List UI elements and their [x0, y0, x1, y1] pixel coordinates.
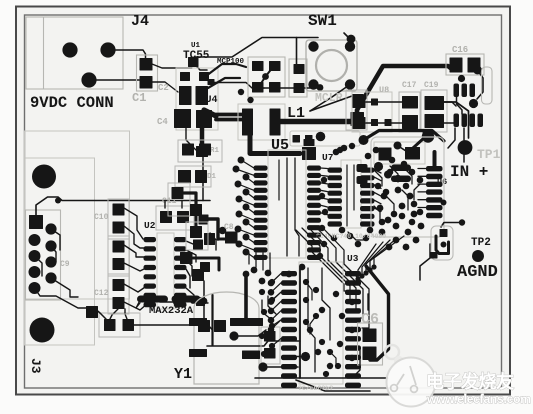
- bar left b: [357, 176, 368, 184]
- U3 pin column left: [281, 271, 297, 276]
- bottom bars under U2: [137, 296, 168, 303]
- silk box C19: [421, 90, 447, 132]
- inductor L1 outline: [238, 104, 285, 140]
- via pair above U7: [337, 147, 343, 153]
- svg-text:U2: U2: [144, 220, 156, 231]
- wire J3 pads fan: [51, 229, 60, 250]
- C11 outline: [156, 206, 194, 230]
- silk box D1: [175, 166, 211, 187]
- U5 pin column right: [307, 166, 321, 171]
- via below T: [229, 331, 238, 340]
- wire SW1 BR to MCLR diag: [310, 85, 350, 112]
- curved wire from via b: [477, 70, 483, 99]
- svg-text:D1: D1: [207, 173, 217, 181]
- svg-text:U8: U8: [379, 85, 389, 95]
- svg-text:AGND: AGND: [457, 263, 498, 282]
- thick net L1 to pad stack: [275, 119, 352, 125]
- C16 pad right: [468, 58, 481, 73]
- wire bottom row to SW1: [264, 87, 320, 89]
- U6 pin column: [426, 166, 443, 171]
- osc U wire: [436, 236, 449, 254]
- wire MCLR diag to pad stack: [310, 96, 352, 111]
- vias below U5: [243, 271, 250, 278]
- wire C4 down: [186, 128, 196, 150]
- capacitor C16 outline: [446, 54, 484, 75]
- svg-text:J4: J4: [131, 13, 149, 30]
- extra stubs bottom center: [272, 274, 281, 283]
- D1 pad a: [178, 170, 191, 183]
- Q1 pad right: [405, 147, 420, 160]
- svg-text:C19: C19: [424, 81, 439, 90]
- footprint right of Y1: [261, 327, 280, 364]
- U8 outline: [352, 92, 392, 132]
- svg-text:U4: U4: [206, 95, 218, 106]
- staircase U2 to U3 left: [262, 300, 272, 320]
- U2 pin column left: [144, 237, 157, 242]
- cluster pads mid: [168, 183, 190, 216]
- wire J4 pad3 to C1: [89, 79, 139, 81]
- svg-text:电子发烧友: 电子发烧友: [426, 371, 514, 392]
- svg-text:U1: U1: [191, 42, 201, 50]
- Y1 pad left a: [189, 318, 207, 326]
- SW1 pad BR: [345, 79, 355, 89]
- vias scattered right: [349, 299, 355, 305]
- wire: [203, 281, 205, 318]
- wire U6 area: [441, 223, 462, 228]
- Q1 pad left: [379, 148, 392, 161]
- MCP100 pad 1: [252, 61, 264, 71]
- wire C1 to U1 pad: [152, 64, 192, 68]
- Y1 T bar: [230, 318, 263, 326]
- crystal Y1 body: [194, 292, 259, 384]
- oscillator outline left of TP2: [431, 226, 453, 260]
- wire bundle U5 to U3 staircase: [296, 230, 360, 291]
- wire bars down: [457, 97, 463, 114]
- Y1 pad left b: [189, 349, 207, 357]
- C17 pad row1: [402, 96, 418, 109]
- C19 pad row1: [425, 96, 445, 110]
- big silk box left: [25, 131, 130, 299]
- Q1 via center: [394, 142, 402, 150]
- wire: [296, 356, 306, 358]
- wire diag pad3 to pad1: [258, 67, 273, 88]
- watermark swirl: [385, 345, 399, 359]
- C1 pad bottom: [140, 76, 153, 89]
- silk box Q1: [374, 142, 425, 164]
- silk outline above U5: [290, 131, 360, 146]
- switch SW1 body: [306, 40, 357, 91]
- pad right cluster: [225, 232, 238, 244]
- U7 pin column A: [328, 168, 343, 173]
- IC U5 body outline: [268, 150, 306, 258]
- pads bottom cluster: [198, 320, 210, 332]
- wire from U6 down right: [420, 244, 430, 280]
- small pad above U4 label: [208, 79, 215, 85]
- U4 pad b: [199, 72, 209, 81]
- polarized cap outline right: [482, 67, 493, 104]
- wire U4 to MCP100 diag2: [208, 78, 240, 88]
- silk box mid cluster: [186, 222, 208, 250]
- test point TP2: [472, 250, 484, 262]
- long vertical to Y1 area: [211, 295, 213, 345]
- svg-text:C4: C4: [157, 117, 168, 127]
- wires U5 right column to U7: [321, 167, 328, 170]
- bar center b: [391, 176, 411, 183]
- C14 bars row1: [454, 84, 476, 98]
- wire from via: [234, 330, 266, 336]
- osc dot: [441, 242, 447, 248]
- svg-text:C1: C1: [132, 91, 146, 105]
- L1 pad right: [270, 109, 281, 136]
- mounting hole bottom: [30, 318, 55, 343]
- wire TP1 down: [463, 154, 465, 162]
- thick bus U4 to L1 double: [204, 110, 216, 116]
- thick L wire: [184, 193, 196, 211]
- via fan left of U5: [238, 157, 245, 164]
- U3 pin column right: [345, 271, 361, 276]
- extra vias center right: [333, 149, 340, 156]
- wires left pads to U2: [124, 208, 143, 239]
- via lower: [258, 362, 267, 371]
- bar center a: [391, 165, 411, 172]
- svg-text:C8: C8: [224, 223, 234, 232]
- IC U3 body outline: [299, 262, 343, 384]
- IC U2 body outline: [157, 233, 174, 309]
- thick stub Q1 right down: [433, 152, 437, 168]
- big via top of U5: [316, 132, 326, 142]
- thick cluster right of C11: [199, 215, 209, 225]
- thick diagonal to C16: [357, 66, 453, 117]
- wire long from J3 trace to C11: [164, 201, 166, 209]
- wire MAX bottom bars: [136, 300, 140, 308]
- pad stack lower: [351, 112, 365, 126]
- wire Q1 pads: [398, 146, 408, 153]
- R1 outline: [178, 140, 222, 162]
- MCP100 pad 4: [269, 82, 281, 93]
- wire J3 up and across: [36, 197, 210, 215]
- via center below: [384, 171, 392, 179]
- wire SW1 to C3 vertical: [296, 38, 298, 65]
- pads below: [204, 233, 215, 245]
- C6 pad bottom: [363, 347, 377, 361]
- wires to U6 pins: [418, 168, 426, 170]
- wire row2 right: [444, 122, 454, 124]
- U1 top pad: [188, 57, 199, 67]
- svg-text:MCLR: MCLR: [315, 92, 343, 105]
- pad: [192, 269, 204, 281]
- via stub column left of U3: [268, 280, 275, 287]
- svg-text:C9: C9: [60, 260, 70, 269]
- C4 big pad right: [196, 110, 212, 128]
- R1 pad a: [182, 144, 194, 156]
- bracket pad: [302, 147, 316, 160]
- J4 pad 2: [100, 42, 115, 57]
- wire down: [195, 216, 198, 226]
- wires U3 right to below: [352, 350, 360, 378]
- C17 pad row2: [402, 115, 418, 129]
- J4 pad 3: [81, 72, 96, 87]
- U2 pin column right: [174, 237, 187, 242]
- via on long trace: [55, 198, 61, 204]
- supervisor MCP100 outline: [248, 57, 285, 97]
- extra vias bottom center: [269, 279, 275, 285]
- mounting hole top: [32, 165, 56, 189]
- C19 pad row2: [425, 114, 445, 128]
- wire C19 to TP1: [444, 102, 469, 138]
- C6 pad top: [363, 329, 377, 343]
- svg-text:U7: U7: [322, 152, 334, 163]
- svg-text:J3: J3: [28, 358, 43, 374]
- wire from small pad to MCP row: [214, 83, 264, 89]
- pad at stub end: [196, 146, 208, 157]
- U8 small pad row2 a: [371, 119, 378, 126]
- wire U1 top pad to SW1 net: [193, 62, 207, 70]
- wire C1 pad2 right: [152, 82, 178, 92]
- wire row1 right: [440, 102, 456, 106]
- svg-text:IN +: IN +: [450, 163, 488, 181]
- svg-text:9VDC CONN: 9VDC CONN: [30, 94, 114, 112]
- wire long bottom: [255, 377, 388, 379]
- svg-text:?C/cbC?b?: ?C/cbC?b?: [298, 385, 333, 392]
- svg-text:SW1: SW1: [308, 12, 337, 30]
- thick wrap around C6: [366, 266, 389, 360]
- vertical trace inside U7: [346, 165, 348, 226]
- small pad right of J3: [86, 306, 98, 318]
- J4 pad 1: [62, 42, 77, 57]
- svg-text:Y1: Y1: [174, 366, 192, 383]
- wire row2: [366, 122, 402, 124]
- Y1 T wire: [244, 276, 248, 318]
- wire down from U1 area: [202, 130, 204, 201]
- J3 round pads left column: [29, 234, 41, 246]
- U2 right small pads: [193, 240, 203, 250]
- silk box pad stack: [346, 90, 367, 130]
- small pad a: [293, 135, 301, 143]
- wires fan into U3 right diagonals: [374, 236, 404, 266]
- J3 round pads right column: [45, 223, 56, 234]
- U8 pad row1: [353, 96, 366, 108]
- vias between U7 and U6: [381, 193, 388, 200]
- black bar right of Y1: [242, 351, 260, 360]
- svg-text:TP1: TP1: [477, 147, 501, 162]
- U8 small pad row1: [371, 99, 378, 106]
- svg-text:TP2: TP2: [471, 237, 491, 249]
- silk box inner: [25, 158, 95, 345]
- U8 small pad row2 b: [385, 119, 392, 126]
- via near U3: [301, 352, 310, 361]
- MCP100 center via: [262, 73, 269, 80]
- vertical trace along U3: [299, 266, 301, 378]
- transistor U4 outline: [176, 68, 218, 130]
- test point TP1: [458, 140, 473, 155]
- wire into pad pair: [93, 307, 106, 319]
- thick L wire 2: [193, 258, 219, 270]
- U5 pin column left: [254, 166, 268, 171]
- via right of U6: [441, 200, 447, 206]
- MCP100 pad 3: [252, 82, 264, 93]
- C3 pad top: [294, 64, 305, 74]
- pad above bracket: [304, 139, 315, 146]
- bottom pad pair: [99, 313, 140, 337]
- via left of arch: [359, 135, 369, 145]
- J3 square pad: [29, 215, 43, 229]
- extra stubs center right: [374, 170, 382, 186]
- svg-text:U3: U3: [347, 253, 359, 264]
- SW1 pad BL: [308, 79, 318, 89]
- C11 pad a: [160, 211, 172, 223]
- SW1 pad TL: [308, 41, 318, 51]
- wire U4 to MCP100 diag1: [206, 64, 246, 76]
- osc bar left: [430, 252, 438, 259]
- D1 pad b: [195, 170, 207, 183]
- wires U5 left bottom down: [248, 253, 250, 264]
- C6 outline: [358, 323, 383, 365]
- wire via left: [160, 301, 177, 303]
- C15 bars row2: [454, 114, 484, 128]
- svg-text:C2: C2: [158, 83, 169, 93]
- U8 pad row2: [353, 117, 366, 129]
- connector J4 outline: [26, 17, 123, 89]
- vertical traces inside U3: [308, 268, 315, 372]
- wires U2 right fan: [186, 241, 193, 244]
- R1 pad b: [199, 144, 211, 156]
- via below C16 b: [473, 66, 482, 75]
- wire pad pair right: [134, 325, 213, 330]
- pad dot right: [197, 298, 206, 305]
- via left of Y1: [173, 298, 181, 306]
- extra vias top: [238, 89, 244, 95]
- via in cluster: [219, 227, 227, 235]
- silk box C17: [399, 92, 420, 132]
- wire horizontal mid: [207, 341, 300, 346]
- wire TP1 up: [463, 128, 465, 140]
- via right: [459, 219, 465, 225]
- wire top horizontal to U1: [196, 38, 318, 58]
- connector J3 body: [26, 210, 61, 300]
- wires U7B to vias: [374, 169, 382, 173]
- U4 pad a: [180, 72, 190, 81]
- thick stub down: [200, 126, 205, 148]
- wire SW1 TR up stub: [344, 33, 350, 47]
- vias right of U5: [321, 177, 327, 183]
- big via right: [422, 130, 434, 142]
- C16 pad left: [450, 58, 463, 73]
- C1 pad top: [140, 58, 153, 71]
- wire row1: [366, 101, 402, 103]
- osc pad top: [440, 229, 448, 237]
- silk boxes around left pads: [108, 199, 129, 239]
- bar left a: [357, 164, 368, 172]
- wire via to U3: [263, 366, 298, 368]
- L1 pad left: [242, 109, 253, 136]
- capacitor C1 outline: [137, 55, 158, 91]
- U4 pad d right tall: [196, 86, 209, 105]
- wire right region vertical: [448, 128, 455, 148]
- via below C16 a: [458, 75, 465, 82]
- vertical traces inside U5: [286, 158, 288, 256]
- U7 pin column B: [360, 168, 375, 173]
- small pad b: [305, 135, 313, 143]
- capacitor C3 outline: [289, 59, 307, 97]
- U4 pad c left tall: [179, 86, 192, 105]
- wire big via down: [427, 133, 429, 137]
- MCP100 pad 2: [269, 61, 281, 71]
- wire J4 pad2 to C1: [108, 50, 146, 60]
- via top right of SW1: [347, 35, 356, 44]
- wire cluster down: [218, 238, 230, 241]
- thick wire Q1 pad up: [413, 133, 424, 148]
- SW1 pad TR: [345, 41, 355, 51]
- IC U7 outline: [341, 160, 361, 228]
- watermark logo circle: [387, 358, 436, 407]
- transistor Q1 arch wire: [364, 131, 445, 142]
- wire diagonal bottom: [296, 380, 370, 391]
- svg-text:MAX232A: MAX232A: [149, 305, 194, 317]
- pad stack upper: [352, 94, 364, 105]
- svg-text:C12: C12: [94, 289, 109, 298]
- IC U6 outline: [371, 137, 444, 237]
- svg-text:C10: C10: [94, 213, 109, 222]
- C4 big pad left: [174, 109, 191, 128]
- C3 pad bottom: [294, 83, 305, 93]
- via below bars: [469, 99, 478, 108]
- via right of C3: [317, 84, 324, 91]
- via below Q1: [374, 162, 383, 171]
- svg-text:R1: R1: [210, 147, 220, 155]
- svg-text:C17: C17: [402, 81, 417, 90]
- C11 pad b: [177, 211, 189, 223]
- thick bracket under U5: [250, 130, 300, 154]
- svg-text:www.elecfans.com: www.elecfans.com: [426, 392, 531, 406]
- svg-text:C6: C6: [361, 311, 379, 328]
- left pad column squares: [113, 204, 125, 216]
